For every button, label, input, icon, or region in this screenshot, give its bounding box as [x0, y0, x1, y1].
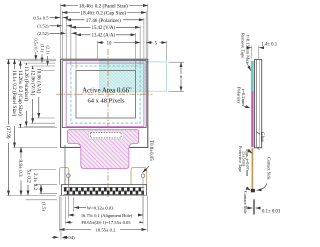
svg-text:12.06 (V/A): 12.06 (V/A) [29, 70, 36, 96]
svg-text:(1.52): (1.52) [37, 24, 49, 29]
svg-text:64 x 48 Pixels: 64 x 48 Pixels [87, 97, 124, 104]
svg-text:t=0.2mm: t=0.2mm [241, 89, 246, 106]
svg-text:(2.1): (2.1) [46, 46, 51, 55]
svg-text:(0.04): (0.04) [64, 235, 76, 240]
svg-text:5± 0.2: 5± 0.2 [25, 170, 31, 184]
svg-text:10.06 (A/A): 10.06 (A/A) [36, 68, 43, 94]
svg-text:15.42 (V/A): 15.42 (V/A) [92, 26, 116, 31]
svg-text:18.46± 0.2 (Cap Size): 18.46± 0.2 (Cap Size) [80, 9, 126, 16]
svg-text:9.8± 0.3: 9.8± 0.3 [17, 160, 23, 178]
svg-text:0.1± 0.03: 0.1± 0.03 [262, 210, 281, 215]
svg-text:Remove Tape: Remove Tape [241, 33, 246, 58]
svg-text:(27.9): (27.9) [5, 126, 12, 139]
svg-text:t=0.15mm Max: t=0.15mm Max [245, 35, 250, 64]
svg-text:Active Area 0.66": Active Area 0.66" [82, 88, 132, 95]
svg-text:1.4± 0.1: 1.4± 0.1 [261, 43, 277, 48]
svg-text:Max. t=0.07mm: Max. t=0.07mm [245, 149, 250, 177]
svg-text:P0.65±(28-1)=17.55± 0.05: P0.65±(28-1)=17.55± 0.05 [81, 220, 131, 225]
svg-text:T0.8±0.05: T0.8±0.05 [148, 140, 153, 161]
svg-text:Contact Side: Contact Side [243, 191, 248, 214]
svg-text:Contact Side: Contact Side [266, 157, 271, 180]
svg-text:0.5± 0.5: 0.5± 0.5 [34, 39, 39, 53]
svg-text:10: 10 [107, 41, 112, 46]
svg-text:13.26 (Polarizer): 13.26 (Polarizer) [23, 66, 30, 101]
svg-text:18.46± 0.2 (Panel Size): 18.46± 0.2 (Panel Size) [79, 2, 128, 9]
svg-text:17.46 (Polarizer): 17.46 (Polarizer) [86, 17, 121, 24]
svg-text:18.55± 0.2: 18.55± 0.2 [96, 227, 116, 232]
svg-text:Polarizer: Polarizer [236, 87, 241, 104]
svg-text:(1.1): (1.1) [40, 44, 45, 53]
svg-text:2.1± 0.2: 2.1± 0.2 [32, 173, 38, 191]
svg-text:W=0.32± 0.03: W=0.32± 0.03 [87, 205, 114, 210]
svg-text:(2.52): (2.52) [37, 31, 49, 36]
svg-text:(1.5): (1.5) [41, 202, 46, 211]
svg-text:13.42 (A/A): 13.42 (A/A) [92, 34, 116, 39]
svg-text:16.75± 0.1 (Alignment Hole): 16.75± 0.1 (Alignment Hole) [81, 213, 133, 218]
svg-text:0.5± 0.5: 0.5± 0.5 [33, 15, 49, 20]
